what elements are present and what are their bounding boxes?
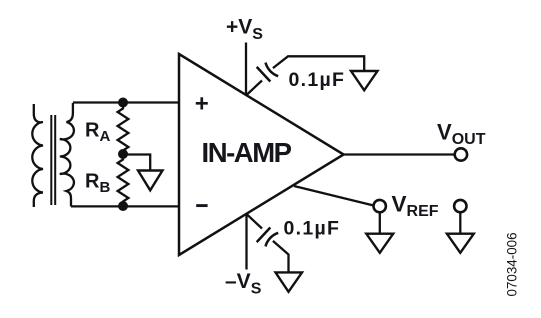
- capacitor C1 straight plate: [257, 67, 271, 82]
- transformer T1 primary stub top: [34, 104, 41, 123]
- capacitor C2 lead to ground: [273, 241, 289, 272]
- capacitor C2 lead from -VS junction: [247, 214, 263, 229]
- resistor RA: [118, 103, 129, 155]
- terminal VREF circle: [374, 200, 386, 212]
- label - input: [196, 204, 207, 207]
- ground (RA/RB midpoint): [138, 171, 163, 191]
- svg-text:VREF: VREF: [392, 192, 439, 221]
- capacitor C2 straight plate: [257, 228, 271, 243]
- transformer T1 primary stub bottom: [34, 193, 43, 208]
- wire: output from apex to VOUT terminal: [344, 153, 454, 155]
- wire: VREF terminal to ground: [379, 212, 381, 233]
- svg-text:IN-AMP: IN-AMP: [202, 137, 292, 168]
- transformer T1 secondary winding: [60, 103, 74, 206]
- svg-text:RB: RB: [85, 171, 110, 197]
- wire: floating terminal to ground: [459, 212, 461, 233]
- ground (bottom bypass): [276, 272, 303, 291]
- node: +input junction dot: [118, 98, 128, 108]
- ground (floating right): [447, 234, 474, 253]
- wire: top rail from transformer to in-amp + input: [73, 101, 179, 103]
- resistor RB: [118, 154, 129, 206]
- op-amp U1 IN-AMP triangle: [179, 54, 344, 255]
- svg-text:+VS: +VS: [226, 16, 263, 44]
- svg-text:+: +: [195, 91, 209, 118]
- capacitor C1 lead to ground run: [273, 56, 364, 70]
- svg-text:RA: RA: [85, 120, 110, 146]
- node: RA/RB midpoint junction dot: [118, 149, 128, 159]
- wire: +VS supply down to top edge: [245, 43, 247, 96]
- wire: VREF from bottom edge to terminal: [294, 186, 374, 206]
- svg-text:0.1µF: 0.1µF: [289, 69, 346, 91]
- ground (top bypass): [351, 71, 378, 90]
- ground (VREF): [366, 234, 393, 253]
- node: -input junction dot: [118, 201, 128, 211]
- terminal: floating reference circle: [454, 200, 466, 212]
- wire: -VS supply down from bottom edge: [245, 214, 247, 270]
- transformer T1 core: [51, 115, 55, 205]
- svg-text:–VS: –VS: [225, 270, 262, 298]
- svg-text:0.1µF: 0.1µF: [284, 218, 341, 240]
- capacitor C1 curved plate: [266, 63, 279, 77]
- transformer T1 primary winding: [32, 122, 43, 193]
- wire: RA/RB midpoint to ground: [123, 155, 150, 171]
- capacitor C1 lead from +VS junction: [247, 81, 263, 96]
- capacitor C2 curved plate: [266, 233, 279, 247]
- svg-text:07034-006: 07034-006: [505, 232, 520, 296]
- wire: bottom rail from transformer to in-amp - input: [71, 205, 179, 207]
- svg-text:VOUT: VOUT: [437, 120, 486, 149]
- terminal VOUT circle: [455, 148, 467, 160]
